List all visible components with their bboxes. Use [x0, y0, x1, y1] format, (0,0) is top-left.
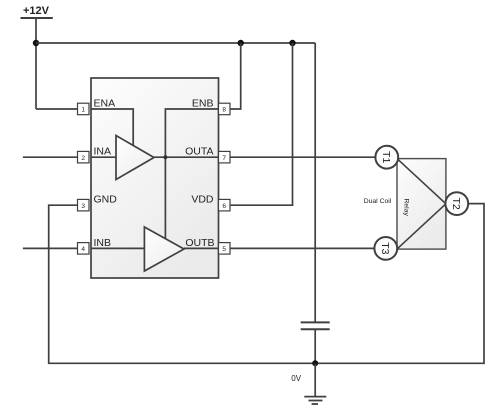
ground stem — [314, 363, 316, 396]
IC U1 body — [91, 78, 219, 278]
svg-text:INA: INA — [94, 146, 112, 158]
wire ENA to buffer A — [91, 109, 133, 146]
terminal T1 — [375, 146, 398, 169]
wire INA internal — [91, 156, 116, 158]
pin 6 — [219, 199, 231, 211]
svg-text:T3: T3 — [379, 242, 391, 254]
wire capacitor to 0V rail — [314, 329, 316, 363]
wire VDD drop — [230, 43, 293, 205]
svg-text:1: 1 — [81, 107, 85, 114]
pin 5 — [219, 243, 231, 255]
svg-text:2: 2 — [81, 155, 85, 162]
svg-text:ENB: ENB — [192, 98, 214, 110]
junction top ENB — [238, 40, 244, 46]
wire top rail — [36, 42, 315, 44]
wire supply to capacitor — [314, 43, 316, 322]
ground symbol — [304, 397, 326, 404]
pin 2 — [78, 151, 90, 163]
svg-text:T1: T1 — [380, 151, 392, 163]
svg-text:INB: INB — [94, 237, 112, 249]
svg-text:6: 6 — [222, 203, 226, 210]
svg-text:T2: T2 — [450, 197, 462, 209]
svg-text:OUTA: OUTA — [185, 146, 213, 158]
buffer B triangle — [144, 227, 184, 271]
wire INA stub — [23, 156, 78, 158]
wire T2 to 0V rail — [315, 204, 484, 364]
pin 1 — [78, 103, 90, 115]
svg-text:5: 5 — [222, 246, 226, 253]
junction top VDD — [289, 40, 295, 46]
wire OUTB to T3 — [230, 247, 375, 249]
relay coil diagonal lower — [397, 204, 446, 249]
wire ENB to buffer B — [165, 109, 218, 238]
pin 7 — [219, 151, 231, 163]
wire GND to 0V rail — [49, 205, 316, 363]
svg-text:0V: 0V — [291, 374, 301, 383]
svg-text:Dual Coil: Dual Coil — [364, 198, 392, 205]
svg-text:7: 7 — [222, 155, 226, 162]
pin 3 — [78, 199, 90, 211]
relay coil diagonal upper — [397, 159, 446, 204]
wire OUTB internal — [184, 247, 219, 249]
wire ENB drop — [230, 43, 241, 109]
buffer A triangle — [116, 136, 154, 180]
svg-text:3: 3 — [81, 203, 85, 210]
terminal T3 — [374, 237, 397, 260]
wire OUTA internal — [154, 156, 219, 158]
svg-text:OUTB: OUTB — [185, 237, 214, 249]
pin 4 — [78, 243, 90, 255]
wire INB stub — [23, 247, 78, 249]
svg-text:VDD: VDD — [191, 194, 214, 206]
capacitor C1 bottom plate — [301, 328, 330, 330]
svg-text:ENA: ENA — [94, 98, 116, 110]
svg-text:+12V: +12V — [23, 5, 50, 17]
svg-text:Relay: Relay — [403, 199, 410, 217]
wire OUTA to T1 — [230, 156, 376, 158]
svg-text:8: 8 — [222, 107, 226, 114]
svg-text:4: 4 — [81, 246, 85, 253]
junction top-left — [33, 40, 39, 46]
junction OUTA/ENB cross — [163, 155, 167, 159]
junction 0V — [312, 360, 318, 366]
terminal T2 — [445, 192, 468, 215]
svg-text:GND: GND — [94, 194, 118, 206]
pin 8 — [219, 103, 231, 115]
capacitor C1 top plate — [301, 321, 330, 323]
relay body — [397, 159, 446, 250]
wire +12V down — [35, 18, 37, 109]
power rail bar — [21, 17, 53, 19]
wire +12V to pin1 — [36, 108, 78, 110]
wire INB internal — [91, 247, 144, 249]
